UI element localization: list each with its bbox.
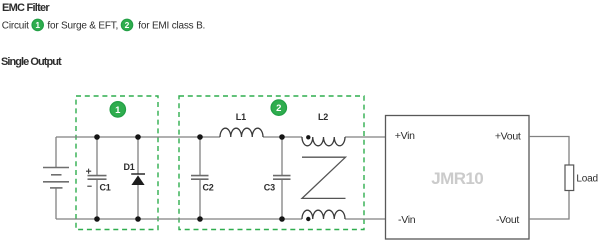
wire D1 branch (137, 137, 139, 219)
svg-text:1: 1 (115, 105, 121, 116)
svg-text:D1: D1 (124, 162, 135, 172)
svg-text:C3: C3 (264, 183, 275, 193)
svg-text:Circuit: Circuit (2, 20, 29, 31)
svg-text:-Vout: -Vout (496, 214, 519, 226)
capacitor C3 (273, 176, 291, 180)
marker circle 2 (271, 100, 286, 115)
converter module U1 box (386, 116, 530, 240)
callout circle 1 (inline) (32, 19, 43, 30)
diode D1 triangle (131, 175, 144, 185)
node dot C1 top (94, 134, 100, 140)
svg-text:C1: C1 (100, 183, 111, 193)
choke L2 top winding (302, 137, 345, 146)
wire +Vout to load (529, 137, 569, 166)
node dot C1 bottom (94, 216, 100, 222)
svg-text:+Vout: +Vout (495, 130, 521, 142)
svg-text:L1: L1 (236, 112, 246, 122)
battery BT1 (43, 168, 69, 188)
node dot C2 top (197, 134, 203, 140)
node dot C3 top (279, 134, 285, 140)
svg-text:L2: L2 (318, 112, 328, 122)
inductor L1 (220, 128, 263, 137)
dashed box 2 (179, 96, 364, 230)
wire -Vout to load (529, 191, 569, 220)
wire C3 branch (281, 137, 283, 219)
node dot C2 bottom (197, 216, 203, 222)
C1 polarity + sign (86, 169, 91, 174)
wire top rail (56, 136, 386, 138)
svg-text:-Vin: -Vin (398, 214, 416, 226)
choke L2 bottom polarity dot (306, 217, 310, 221)
wire battery leads (55, 137, 57, 219)
svg-text:2: 2 (125, 20, 130, 30)
wire C1 branch (96, 137, 98, 219)
node dot D1 top (135, 134, 141, 140)
wire C2 branch (199, 137, 201, 219)
wire bottom rail (56, 218, 386, 220)
svg-text:for EMI class B.: for EMI class B. (138, 20, 205, 31)
svg-text:Single Output: Single Output (1, 56, 62, 68)
C1 polarity - sign (87, 185, 91, 187)
svg-text:2: 2 (276, 103, 281, 114)
choke L2 bottom winding (302, 210, 345, 219)
diode D1 cathode bar (131, 173, 145, 175)
svg-text:JMR10: JMR10 (431, 169, 483, 188)
svg-text:+Vin: +Vin (395, 130, 415, 142)
choke L2 top polarity dot (306, 135, 310, 139)
node dot D1 bottom (135, 216, 141, 222)
choke L2 core Z symbol (302, 157, 346, 198)
callout circle 2 (inline) (121, 19, 132, 30)
marker circle 1 (110, 102, 125, 117)
svg-text:EMC Filter: EMC Filter (2, 2, 50, 14)
dashed box 1 (76, 96, 158, 230)
node dot C3 bottom (279, 216, 285, 222)
capacitor C1 (88, 176, 107, 180)
load resistor (565, 165, 574, 191)
capacitor C2 (191, 176, 209, 180)
svg-text:Load: Load (576, 174, 597, 185)
svg-text:for Surge & EFT,: for Surge & EFT, (47, 20, 118, 31)
svg-text:C2: C2 (203, 183, 214, 193)
svg-text:1: 1 (35, 20, 40, 30)
